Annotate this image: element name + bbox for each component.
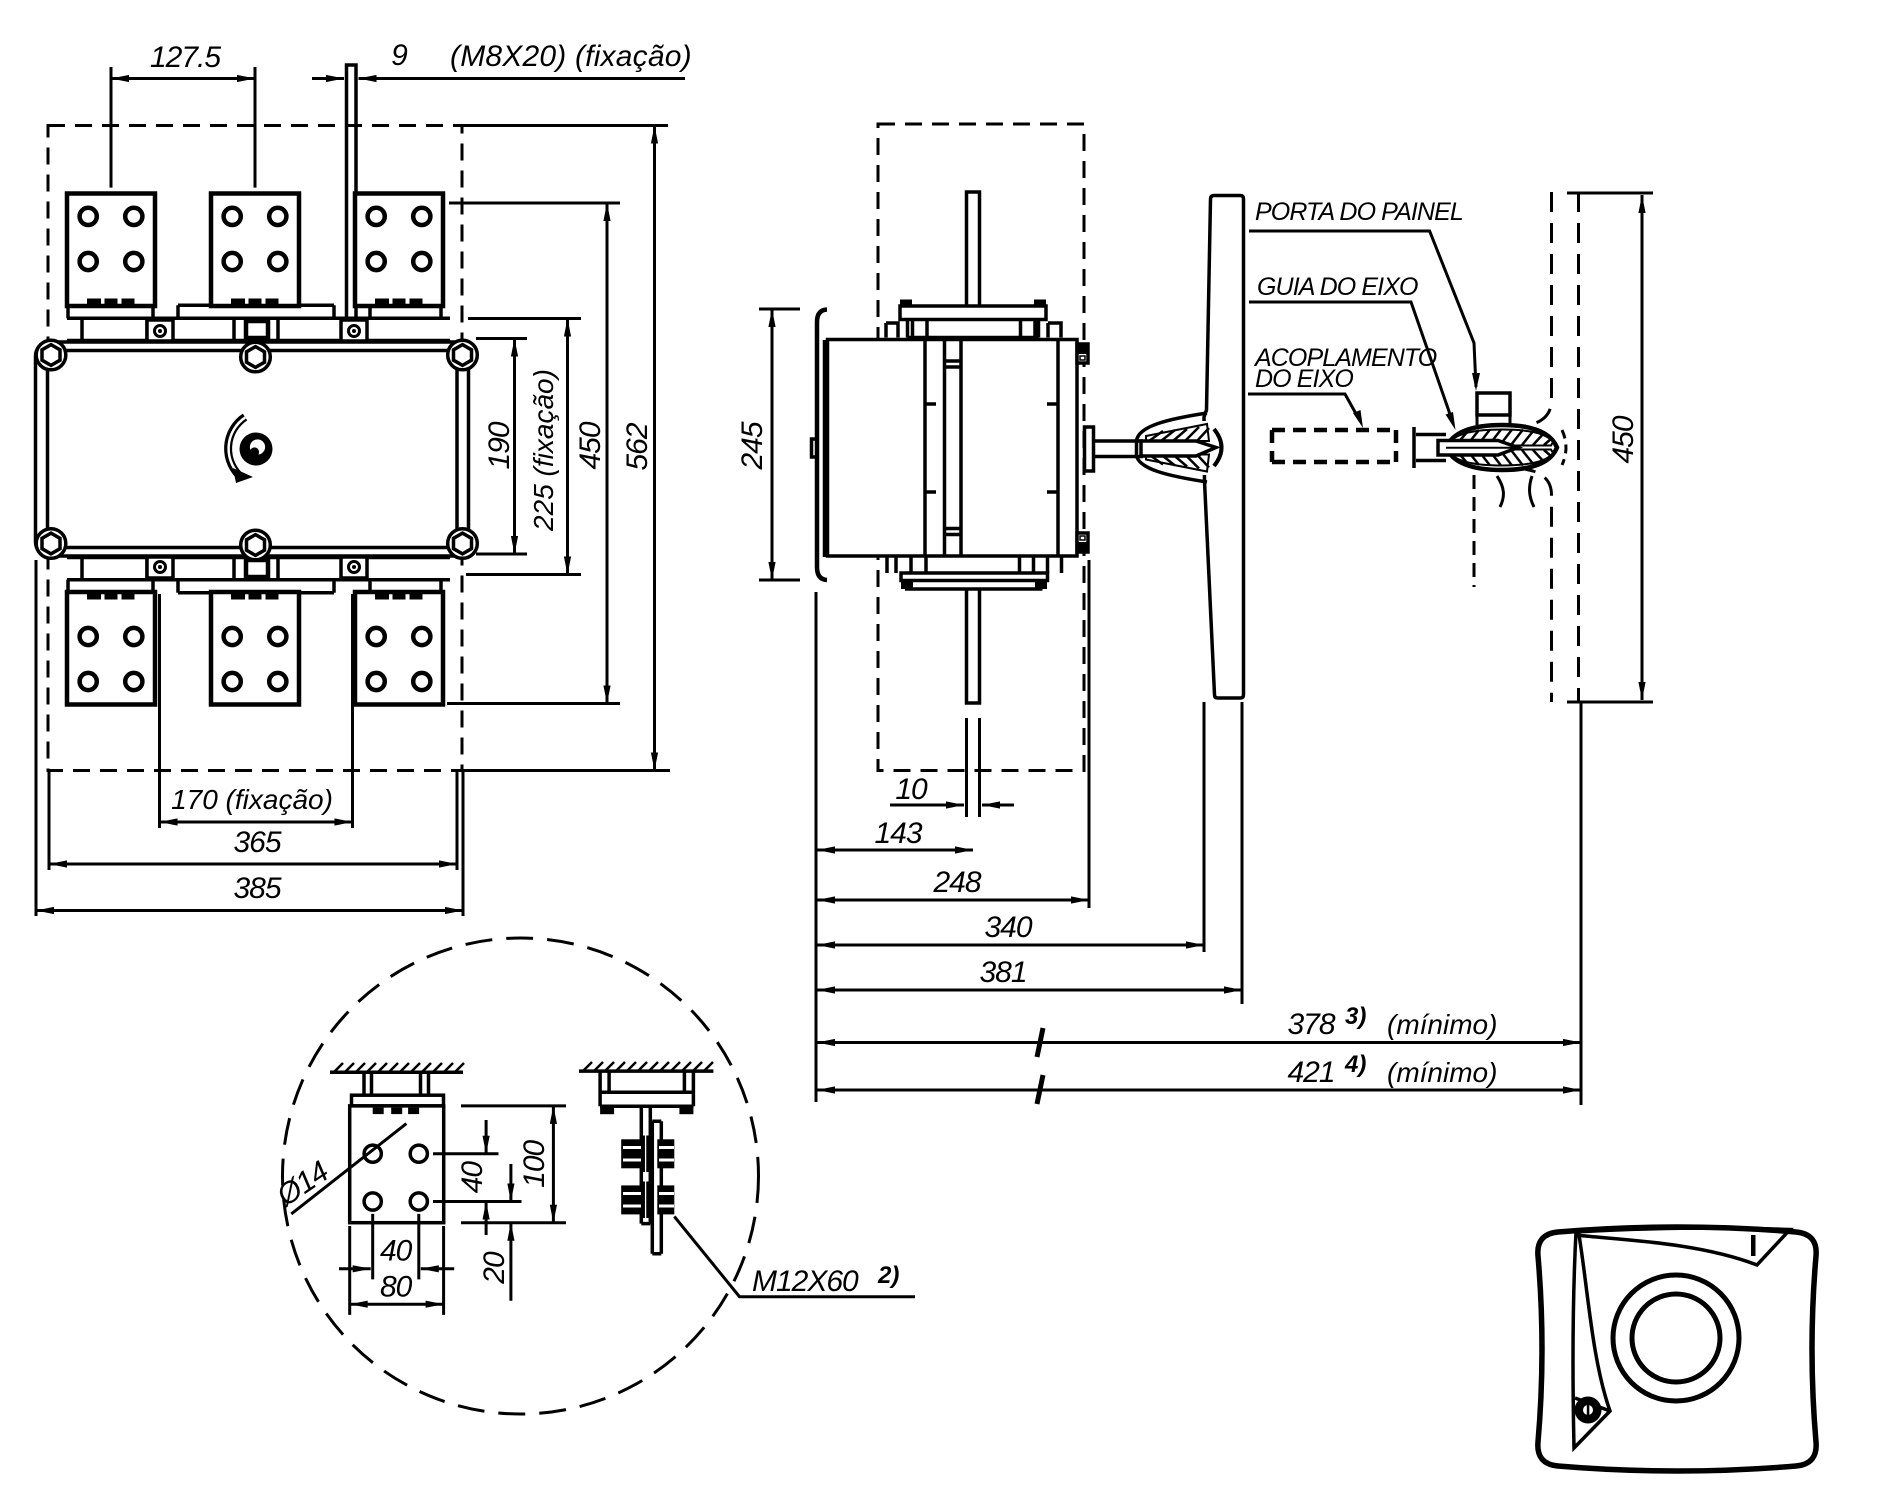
knob ring outer	[1613, 1275, 1739, 1401]
detail circle dashed	[283, 938, 759, 1414]
svg-text:190: 190	[483, 421, 516, 469]
svg-text:450: 450	[1607, 415, 1640, 463]
mounting plate (left, side view)	[817, 310, 827, 581]
dim 365	[49, 771, 457, 870]
shaft tip inside eye	[1438, 441, 1518, 456]
svg-text:127.5: 127.5	[150, 41, 221, 74]
dim 100 bracket height	[461, 1106, 566, 1223]
bracket body with holes	[350, 1106, 444, 1223]
dim 248	[817, 560, 1089, 908]
knob ring inner	[1632, 1294, 1720, 1382]
drive shaft top (side view)	[967, 192, 980, 306]
terminal pad L3 bottom	[355, 592, 443, 705]
bracket hanger bolts	[364, 1072, 429, 1095]
svg-text:225 (fixação): 225 (fixação)	[528, 369, 559, 532]
svg-text:M12X60: M12X60	[752, 1265, 859, 1298]
dim 143	[817, 817, 973, 850]
hub hatched wedge top	[1146, 424, 1209, 441]
svg-text:248: 248	[932, 866, 981, 899]
knob O mark	[1575, 1397, 1602, 1424]
cover bolt bottom-middle	[241, 530, 271, 560]
bracket top plate	[352, 1095, 444, 1106]
switch body (side view)	[828, 340, 1078, 557]
hub hatched wedge bottom	[1146, 455, 1209, 472]
terminal pad L1 bottom	[67, 592, 155, 705]
dim 340	[817, 702, 1204, 952]
svg-text:143: 143	[874, 817, 922, 850]
left bracket ceiling with hatch	[330, 1063, 464, 1072]
door funnel solid curves below eye	[1497, 476, 1534, 507]
shaft tip inside hub	[1141, 441, 1216, 456]
dim 378 minimo	[817, 1003, 1581, 1057]
knob face triangle edge	[1575, 1398, 1610, 1411]
dim 381	[817, 702, 1242, 1004]
cover bolt top-right	[448, 340, 478, 370]
upper terminal rail	[67, 305, 450, 340]
coupling shaft stub (right view)	[1414, 427, 1446, 468]
dim 10 shaft	[890, 773, 1014, 806]
FRONT-DIMS	[36, 39, 692, 916]
dim 225 fixacao	[466, 319, 581, 575]
drive shaft top (front view)	[347, 65, 357, 318]
lower terminal rail	[67, 558, 450, 593]
DETAIL-CIRCLE	[270, 938, 915, 1414]
handle hub eye (right view)	[1446, 425, 1557, 470]
handle shaft coupling stub	[1085, 427, 1144, 471]
svg-text:4): 4)	[1344, 1051, 1366, 1078]
dim 20	[478, 1164, 511, 1301]
lower fixation screw brackets M8	[147, 557, 173, 578]
dim 80 bracket width	[350, 1226, 444, 1315]
drive shaft bottom (side view)	[967, 589, 980, 703]
right bracket rail channel	[600, 1071, 693, 1114]
upper fixation screw brackets M8	[147, 320, 173, 341]
label M12X60 leader	[674, 1217, 915, 1297]
dim 9 shaft width with M8X20 note	[312, 39, 692, 79]
hanging plates	[641, 1106, 650, 1223]
coupling extension dashed rect	[1272, 430, 1396, 462]
svg-text:245: 245	[736, 421, 769, 470]
svg-text:80: 80	[380, 1271, 413, 1304]
svg-text:365: 365	[233, 826, 281, 859]
FRONT-VIEW	[36, 65, 478, 771]
dim 450 door height	[1567, 193, 1653, 702]
dim 170 fixacao bottom	[160, 594, 353, 828]
svg-text:381: 381	[979, 956, 1026, 989]
knob outer squircle	[1538, 1227, 1816, 1471]
eye hatched band top	[1450, 430, 1553, 446]
knob I mark	[1751, 1235, 1756, 1256]
knob face plate outline	[1576, 1228, 1790, 1265]
svg-text:40: 40	[380, 1235, 413, 1268]
panel door dashed line left	[1516, 192, 1552, 428]
mounting envelope dashed rect	[48, 126, 462, 771]
svg-text:3): 3)	[1345, 1003, 1366, 1030]
cover bolt top-middle	[241, 342, 271, 372]
dim 190 body height	[476, 339, 527, 555]
door handle blade (side profile)	[1204, 196, 1244, 699]
right hinge tab bottom	[1077, 533, 1088, 552]
hub inner cup arc	[1214, 429, 1222, 466]
right bracket ceiling with hatch	[579, 1062, 713, 1071]
svg-text:562: 562	[621, 422, 654, 470]
svg-text:(mínimo): (mínimo)	[1387, 1009, 1497, 1040]
bolt M12 top	[621, 1136, 674, 1173]
bottom terminal plate (side)	[887, 556, 1062, 589]
svg-text:421: 421	[1287, 1056, 1334, 1089]
svg-text:340: 340	[984, 911, 1032, 944]
svg-text:GUIA DO EIXO: GUIA DO EIXO	[1257, 273, 1418, 301]
upper pad lips	[68, 307, 153, 318]
shaft guide block	[1477, 393, 1510, 415]
handle hub funnel	[1199, 421, 1210, 475]
shaft extension lines	[967, 718, 980, 817]
svg-text:40: 40	[456, 1161, 489, 1194]
svg-text:2): 2)	[877, 1262, 899, 1289]
svg-text:100: 100	[518, 1139, 551, 1187]
svg-text:170 (fixação): 170 (fixação)	[171, 784, 333, 815]
svg-text:378: 378	[1287, 1008, 1335, 1041]
switch body outer case	[36, 342, 469, 556]
terminal pad L1 top	[67, 194, 155, 307]
interior lines	[925, 340, 1058, 557]
plate left tab	[812, 439, 818, 457]
cover bolt bottom-right	[448, 529, 478, 559]
dim 421 minimo	[817, 1051, 1581, 1104]
cover bolt top-left	[36, 340, 66, 370]
top terminal plate (side)	[886, 300, 1061, 338]
svg-text:DO EIXO: DO EIXO	[1255, 365, 1353, 393]
leader diameter 14	[291, 1124, 406, 1214]
MIDDLE-VIEW	[812, 124, 1244, 771]
RIGHT-VIEW	[1248, 192, 1653, 702]
svg-text:10: 10	[895, 773, 928, 806]
right extension line for minimum dims	[1580, 702, 1583, 1105]
terminal pad L3 top	[355, 194, 443, 307]
dim 40 hole columns	[339, 1214, 454, 1280]
cover bolt bottom-left	[36, 529, 66, 559]
svg-text:450: 450	[574, 421, 607, 469]
svg-text:(mínimo): (mínimo)	[1387, 1057, 1497, 1088]
dim 245 depth	[736, 309, 800, 580]
svg-text:(M8X20) (fixação): (M8X20) (fixação)	[450, 40, 692, 73]
eye hatched band bottom	[1450, 450, 1553, 466]
mounting envelope dashed rect (side)	[878, 124, 1084, 771]
lower pad lips	[68, 580, 153, 591]
upper central square opening	[246, 321, 268, 338]
svg-text:9: 9	[391, 39, 408, 72]
terminal pad L2 bottom	[211, 592, 299, 705]
shaft guide dashed centerline	[1473, 475, 1476, 587]
svg-text:PORTA DO PAINEL: PORTA DO PAINEL	[1255, 198, 1463, 226]
KNOB-ICON	[1538, 1227, 1816, 1471]
switch body cover inner line	[48, 351, 458, 548]
dim 562 overall envelope	[462, 126, 670, 771]
dim 127.5 pole pitch	[111, 41, 255, 188]
right hinge tab top	[1077, 344, 1088, 363]
svg-text:20: 20	[478, 1251, 511, 1285]
rotary drive symbol	[228, 417, 272, 483]
svg-text:385: 385	[233, 872, 281, 905]
dim 450 overall pads	[447, 203, 620, 704]
eye right dashed arcs	[1562, 430, 1566, 465]
dim 40 hole rows	[433, 1120, 522, 1235]
panel door dashed line right	[1577, 192, 1580, 702]
dim 385	[36, 560, 463, 916]
bolt M12 bottom	[621, 1182, 674, 1219]
MIDDLE-DIMS	[736, 309, 1581, 1105]
lower central square opening	[246, 560, 268, 577]
terminal pad L2 top	[211, 194, 299, 307]
left extension line	[815, 592, 818, 1102]
